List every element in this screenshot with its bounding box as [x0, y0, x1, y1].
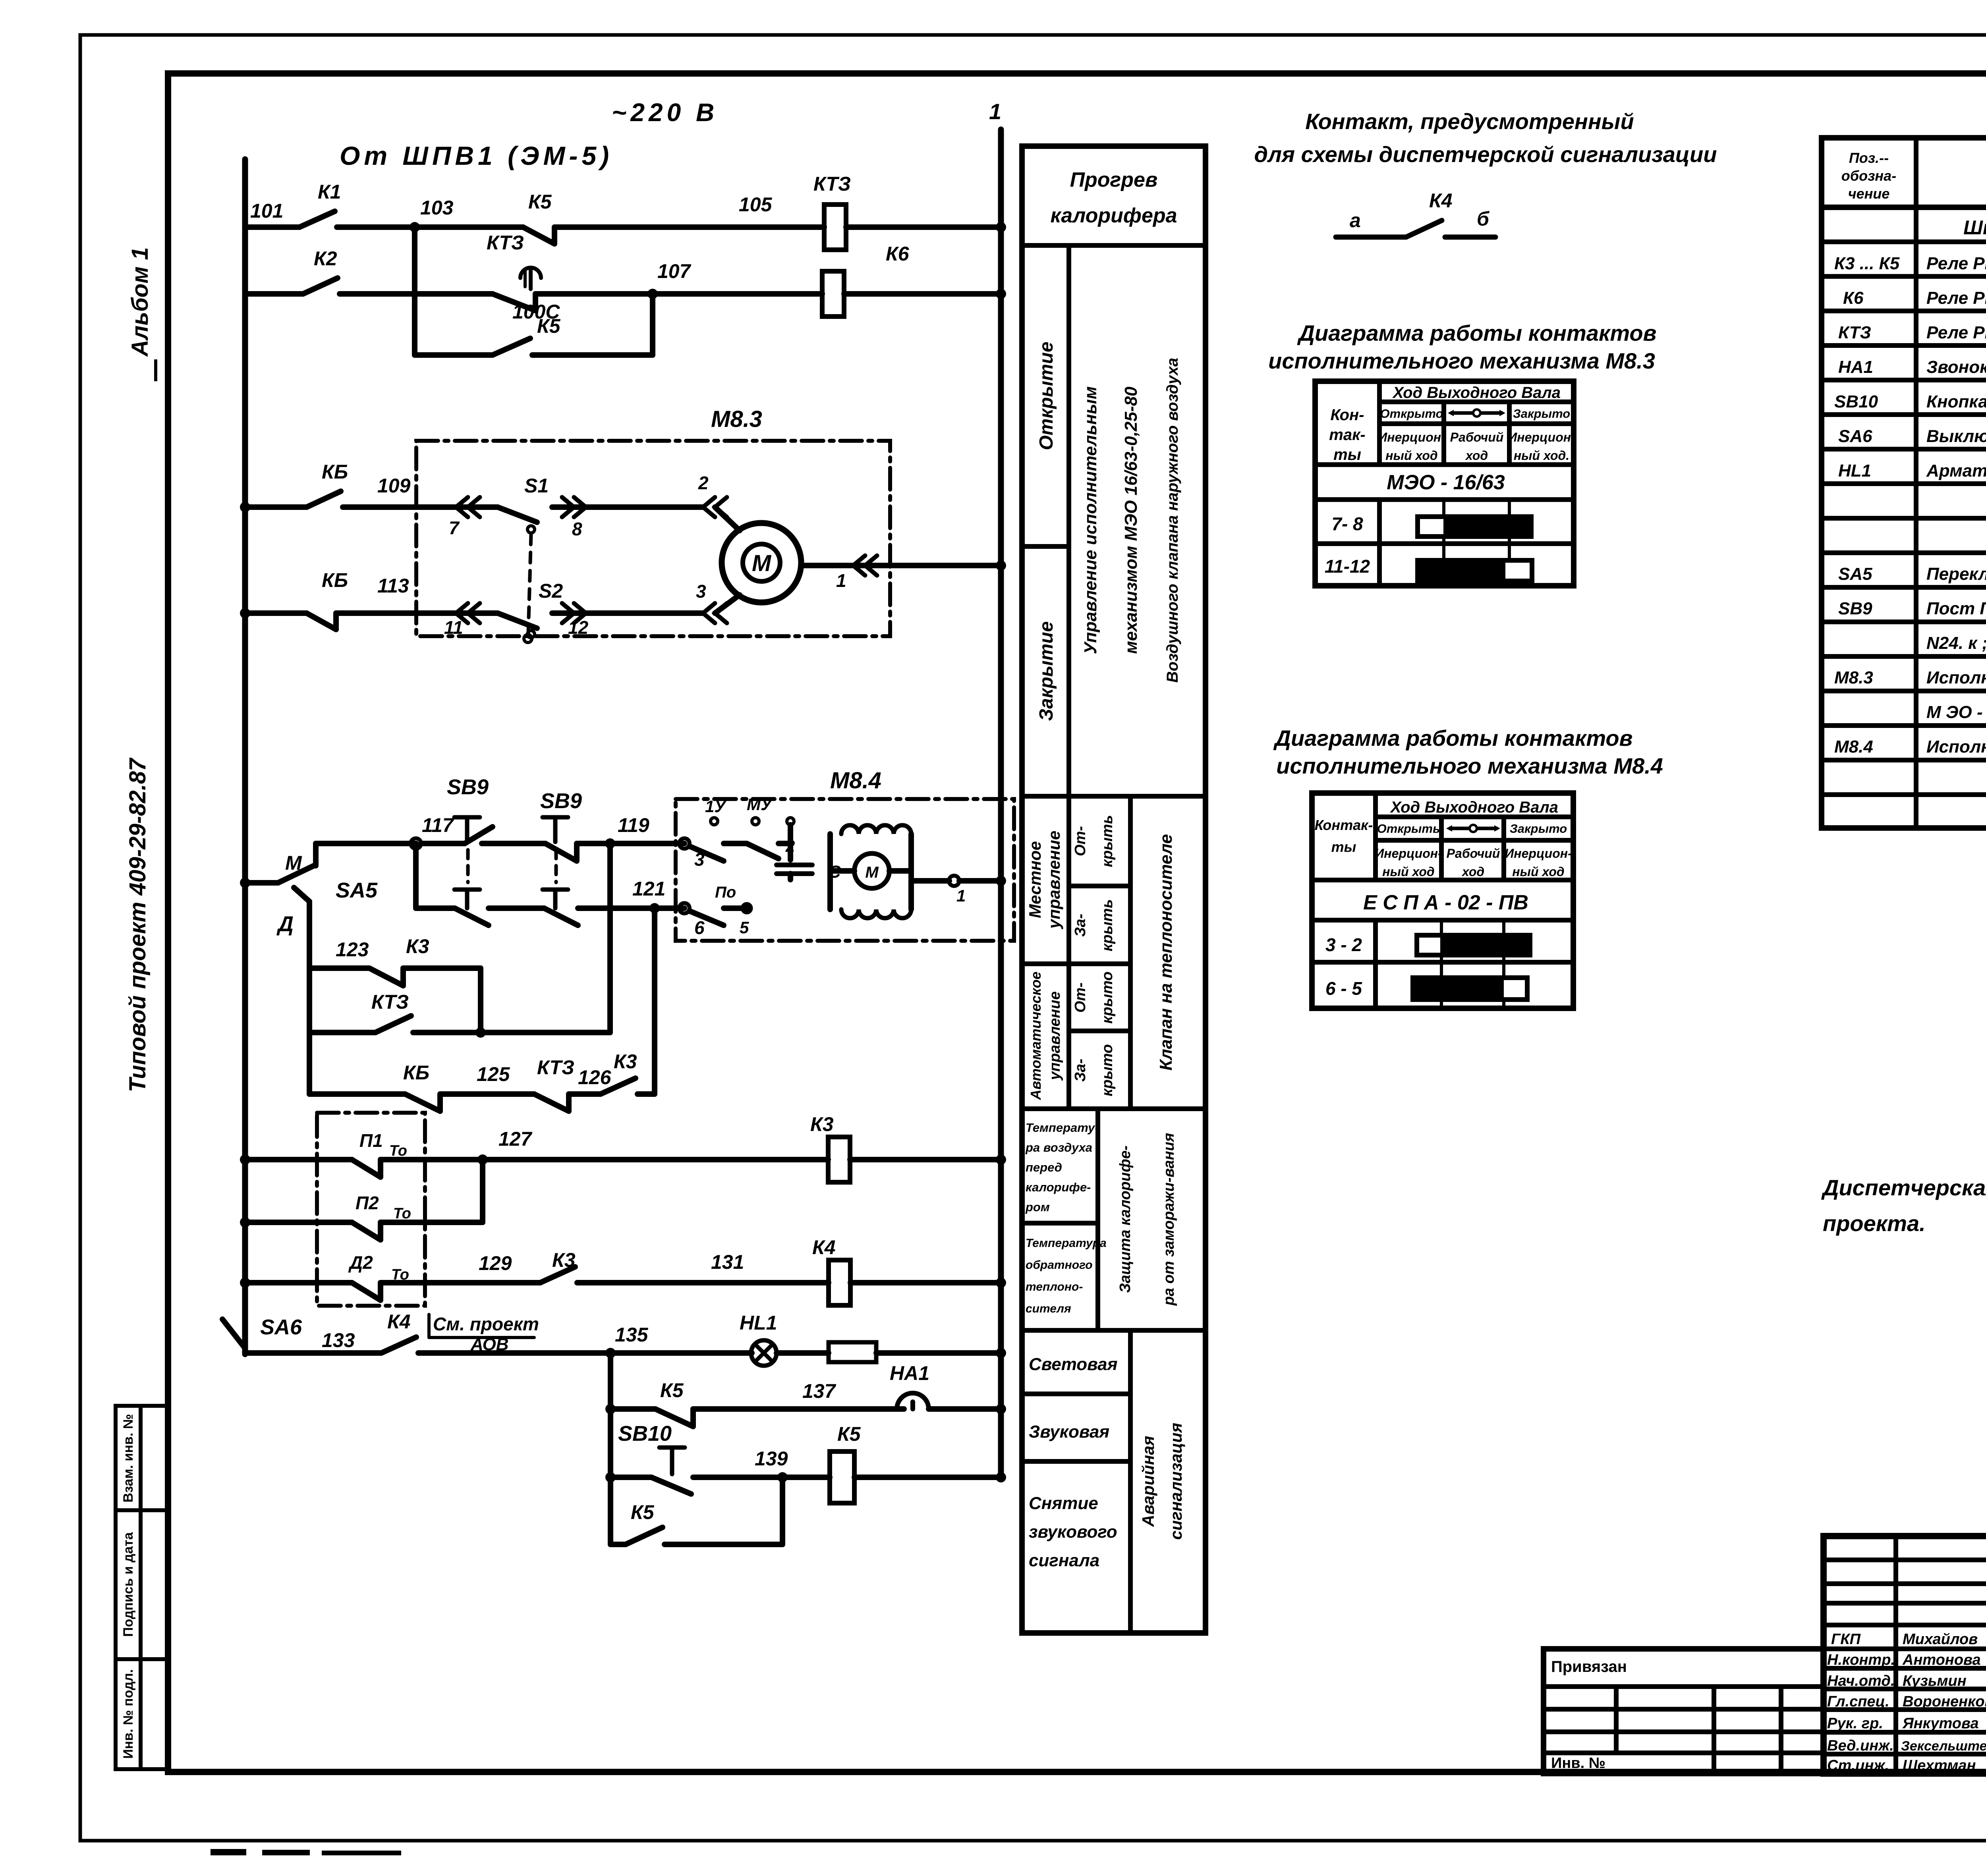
- svg-text:6: 6: [694, 917, 705, 938]
- svg-text:Реле РПУ2-М3Б440УЗБ , U ~ 220: Реле РПУ2-М3Б440УЗБ , U ~ 220В: [1926, 288, 1986, 308]
- svg-text:Управление исполнительным: Управление исполнительным: [1081, 386, 1100, 654]
- svg-text:К6: К6: [1843, 288, 1864, 308]
- svg-text:От ШПВ1 (ЭМ-5): От ШПВ1 (ЭМ-5): [340, 141, 613, 170]
- contact KT3 (126): [534, 1094, 569, 1111]
- svg-text:К2: К2: [314, 247, 337, 270]
- svg-text:То: То: [389, 1143, 407, 1159]
- svg-text:Ход Выходного Вала: Ход Выходного Вала: [1390, 799, 1558, 816]
- chevrons pin 12: [562, 603, 586, 623]
- node 121 junction: [649, 903, 660, 913]
- wire rung 129-131: [240, 1278, 250, 1288]
- svg-text:123: 123: [336, 938, 369, 961]
- svg-text:SB10: SB10: [1834, 392, 1878, 411]
- svg-text:обратного: обратного: [1026, 1258, 1093, 1272]
- svg-text:КТЗ: КТЗ: [537, 1056, 574, 1079]
- winding bottom: [841, 909, 911, 918]
- svg-text:КТЗ: КТЗ: [487, 232, 524, 254]
- pin 6: [679, 903, 690, 913]
- svg-text:сигнала: сигнала: [1029, 1551, 1099, 1570]
- svg-text:Закрыто: Закрыто: [1513, 407, 1570, 421]
- svg-text:Арматура АМЕ 321221У2, U ~ 2: Арматура АМЕ 321221У2, U ~ 220 В: [1926, 461, 1986, 481]
- contact K4 (133): [381, 1337, 416, 1353]
- svg-text:SB9: SB9: [447, 775, 489, 799]
- svg-text:К4: К4: [1429, 189, 1453, 212]
- svg-text:113: 113: [377, 575, 409, 597]
- svg-text:КТЗ: КТЗ: [371, 991, 409, 1013]
- svg-text:МЭО - 16/63: МЭО - 16/63: [1387, 471, 1505, 494]
- svg-text:133: 133: [322, 1329, 355, 1351]
- pin 3: [679, 838, 690, 849]
- wire rung 125-126: [309, 1091, 405, 1097]
- svg-text:11-12: 11-12: [1325, 556, 1370, 577]
- svg-text:Звуковая: Звуковая: [1029, 1422, 1109, 1442]
- contact KT3 (timed NC with umbrella): [493, 294, 535, 311]
- svg-text:ты: ты: [1333, 446, 1361, 463]
- svg-text:5: 5: [740, 918, 749, 937]
- bar 11-12: [1418, 560, 1532, 581]
- right return bus: [998, 129, 1004, 1477]
- svg-text:Инерцион-: Инерцион-: [1508, 430, 1575, 444]
- svg-text:М: М: [752, 550, 772, 576]
- svg-text:Типовой проект 409-29-82.87: Типовой проект 409-29-82.87: [125, 757, 151, 1092]
- button SB10 rung 139: [605, 1472, 616, 1482]
- svg-text:НА1: НА1: [1838, 357, 1873, 377]
- svg-text:Инерцион-: Инерцион-: [1505, 846, 1572, 861]
- svg-text:НА1: НА1: [890, 1362, 929, 1384]
- svg-text:Диспетчерская сигнализация: Диспетчерская сигнализация решается при …: [1821, 1175, 1986, 1200]
- svg-text:~220 В: ~220 В: [612, 98, 718, 127]
- row МЭО: [1926, 703, 1986, 722]
- svg-text:ром: ром: [1025, 1200, 1050, 1214]
- svg-text:117: 117: [422, 814, 454, 836]
- bar 3-2: [1417, 935, 1530, 955]
- svg-text:Зексельштейн: Зексельштейн: [1901, 1739, 1986, 1754]
- svg-text:Исполнительный механизм: Исполнительный механизм: [1926, 668, 1986, 687]
- svg-text:Открыть: Открыть: [1377, 822, 1440, 836]
- row SA5: [1838, 564, 1986, 584]
- chevrons pin 11: [456, 603, 480, 623]
- col Контак-ты 2: [1315, 817, 1373, 855]
- contact P2: [352, 1222, 381, 1240]
- contact KT3 (holding): [375, 1016, 411, 1033]
- svg-text:Е С П А - 02 - ПВ: Е С П А - 02 - ПВ: [1363, 891, 1528, 914]
- svg-text:М ЭО - 16/63 - 0,25 - 80: М ЭО - 16/63 - 0,25 - 80: [1926, 703, 1986, 722]
- svg-text:управление: управление: [1045, 831, 1063, 930]
- node 107: [535, 291, 822, 297]
- svg-text:SA5: SA5: [1838, 564, 1872, 584]
- contact SA6: [222, 1319, 245, 1348]
- row N24: [1926, 633, 1986, 653]
- svg-text:М: М: [865, 864, 879, 881]
- labels rung1: [250, 173, 851, 222]
- svg-text:7: 7: [449, 517, 460, 538]
- chevron pin 1: [853, 556, 877, 575]
- svg-text:К5: К5: [837, 1423, 861, 1445]
- svg-text:Нач.отд.: Нач.отд.: [1827, 1673, 1895, 1689]
- svg-text:135: 135: [615, 1324, 649, 1346]
- sensors dash-dot box: [317, 1113, 425, 1306]
- svg-text:SA5: SA5: [336, 878, 378, 902]
- svg-text:121: 121: [632, 878, 665, 900]
- row М8.4: [1834, 737, 1986, 757]
- node 119: [605, 838, 615, 849]
- svg-text:131: 131: [711, 1251, 744, 1273]
- header Поз. обозначение: [1841, 150, 1896, 202]
- svg-text:7- 8: 7- 8: [1331, 513, 1363, 534]
- contact K5 (137): [655, 1409, 693, 1426]
- svg-text:КТЗ: КТЗ: [1838, 323, 1871, 342]
- svg-text:2: 2: [698, 473, 709, 493]
- node 103: [410, 222, 420, 232]
- motor M8.3: [722, 523, 801, 602]
- svg-text:3: 3: [696, 581, 706, 602]
- svg-text:так-: так-: [1329, 426, 1365, 444]
- svg-text:Реле РВП72-3221- 00У4, U ~ 2: Реле РВП72-3221- 00У4, U ~ 220В , 60Гц: [1926, 323, 1986, 342]
- contact K3 (129): [540, 1267, 575, 1283]
- svg-text:6 - 5: 6 - 5: [1325, 978, 1362, 999]
- svg-text:Прогрев: Прогрев: [1070, 168, 1158, 191]
- holding contact K5 rung: [610, 1542, 626, 1547]
- svg-text:ты: ты: [1331, 839, 1356, 855]
- wire 103-K5: [415, 224, 523, 230]
- linkage dashes SB9: [466, 850, 470, 882]
- svg-text:SB9: SB9: [1838, 599, 1872, 618]
- svg-text:К4: К4: [812, 1236, 836, 1258]
- row М8.3: [1834, 668, 1986, 687]
- svg-text:КТЗ: КТЗ: [813, 173, 851, 195]
- labels rung2: [314, 232, 910, 323]
- M8.3 dash-dot enclosure: [416, 441, 890, 636]
- switch blade lower: [690, 911, 724, 925]
- svg-text:Аварийная: Аварийная: [1139, 1436, 1157, 1527]
- svg-text:Диаграмма работы контактов: Диаграмма работы контактов: [1297, 320, 1657, 345]
- M8.4 dash-dot enclosure: [676, 799, 1014, 941]
- svg-text:ный ход: ный ход: [1385, 448, 1437, 463]
- svg-text:чение: чение: [1848, 185, 1890, 202]
- wire K6 to bus: [844, 291, 1001, 297]
- svg-text:Рук. гр.: Рук. гр.: [1827, 1715, 1883, 1732]
- contact K3 (123): [369, 968, 403, 986]
- cell Снятие звукового сигнала: [1029, 1494, 1117, 1570]
- svg-text:Рабочий: Рабочий: [1450, 430, 1504, 444]
- svg-text:N24. к ; 1з+1р: N24. к ; 1з+1р: [1926, 633, 1986, 653]
- svg-text:Д: Д: [276, 912, 294, 936]
- svg-text:Контак-: Контак-: [1315, 817, 1373, 833]
- contact symbol a-K4-b: [1336, 220, 1495, 237]
- svg-text:Кон-: Кон-: [1331, 406, 1364, 424]
- svg-text:Температу-: Температу-: [1026, 1121, 1099, 1135]
- cell Температура обратного теплоносителя: [1026, 1237, 1107, 1315]
- row КТЗ: [1838, 323, 1986, 342]
- left supply bus: [242, 159, 248, 1354]
- svg-text:Шехтман: Шехтман: [1903, 1757, 1976, 1774]
- contact S1: [498, 507, 537, 522]
- svg-text:механизмом МЭО 16/63-0,25-80: механизмом МЭО 16/63-0,25-80: [1121, 386, 1141, 654]
- svg-text:Клапан на теплоносителе: Клапан на теплоносителе: [1156, 834, 1176, 1070]
- cell Температура воздуха перед калорифером: [1025, 1121, 1099, 1214]
- svg-text:К3 ... К5: К3 ... К5: [1834, 254, 1900, 273]
- dashed linkage S1-S2: [528, 534, 531, 633]
- bottom-left smudge marks: [211, 1849, 246, 1855]
- wire rung 127: [240, 1154, 250, 1165]
- svg-text:3 - 2: 3 - 2: [1325, 934, 1362, 955]
- svg-text:Кузьмин: Кузьмин: [1903, 1673, 1967, 1689]
- svg-text:За-: За-: [1072, 914, 1089, 937]
- svg-text:Альбом 1: Альбом 1: [127, 247, 153, 357]
- svg-text:Гл.спец.: Гл.спец.: [1827, 1693, 1889, 1710]
- svg-text:Д2: Д2: [348, 1252, 373, 1273]
- node 135: [605, 1348, 616, 1358]
- chevrons pin 7: [456, 497, 480, 517]
- wire KT3 to bus: [846, 224, 1001, 230]
- interior connections: [827, 834, 833, 909]
- svg-text:ный ход: ный ход: [1382, 865, 1434, 879]
- svg-text:крыто: крыто: [1099, 1044, 1116, 1096]
- svg-text:крыто: крыто: [1099, 971, 1116, 1023]
- svg-text:М8.3: М8.3: [1834, 668, 1873, 687]
- coil K4: [829, 1260, 850, 1305]
- lower pushbutton path: [416, 905, 455, 911]
- svg-text:Привязан: Привязан: [1551, 1658, 1627, 1675]
- winding top: [841, 825, 911, 834]
- svg-text:Выключатель ПВ2-10УЗЗР00Б: Выключатель ПВ2-10УЗЗР00Б: [1926, 427, 1986, 446]
- svg-text:К5: К5: [537, 315, 561, 337]
- button SB9 pole 1 top: [454, 817, 480, 842]
- contact K3 (to 121): [601, 1078, 636, 1094]
- bell HA1: [897, 1393, 929, 1409]
- svg-text:калорифера: калорифера: [1050, 204, 1177, 227]
- svg-text:НL1: НL1: [740, 1312, 777, 1334]
- svg-text:Кнопка КЕ - 011УЗ, исполн.: Кнопка КЕ - 011УЗ, исполн. 4: [1926, 392, 1986, 411]
- branch Д vertical: [294, 888, 309, 901]
- svg-text:для схемы диспетчерской сигнал: для схемы диспетчерской сигнализации: [1254, 142, 1717, 167]
- svg-text:139: 139: [755, 1448, 788, 1470]
- chevron pin 2: [703, 497, 727, 517]
- pin 1: [949, 876, 959, 886]
- svg-text:Звонок ЗВП 220 В - М4: Звонок ЗВП 220 В - М4: [1926, 357, 1986, 377]
- svg-text:12: 12: [568, 617, 589, 638]
- contact K5 (NC): [523, 227, 554, 244]
- svg-text:перед: перед: [1026, 1160, 1062, 1174]
- svg-text:105: 105: [739, 193, 773, 216]
- svg-text:П1: П1: [359, 1130, 383, 1151]
- svg-text:Ст.инж.: Ст.инж.: [1827, 1757, 1889, 1774]
- svg-text:М: М: [285, 852, 302, 874]
- svg-text:Переключатель ПП2-10/Н3У3ЗР56: Переключатель ПП2-10/Н3У3ЗР56Б: [1926, 564, 1986, 584]
- wire rung KT3 holding: [309, 1030, 375, 1035]
- svg-text:137: 137: [802, 1380, 837, 1402]
- note Cм. проект АОВ: [433, 1314, 539, 1354]
- wire to KT3 contact: [415, 291, 493, 297]
- wire rung P2: [240, 1217, 250, 1228]
- contact P2': [352, 1283, 381, 1300]
- contact SA5: [240, 878, 250, 888]
- svg-text:Диаграмма работы контактов: Диаграмма работы контактов: [1273, 726, 1633, 751]
- labels rung 113: [322, 569, 706, 638]
- contact KB (113): [307, 613, 336, 629]
- svg-text:К3: К3: [552, 1249, 576, 1271]
- svg-text:От-: От-: [1072, 982, 1089, 1013]
- exit wire to bus: [959, 878, 1001, 884]
- svg-text:М8.3: М8.3: [711, 406, 762, 432]
- svg-text:П2: П2: [355, 1193, 379, 1213]
- svg-text:ный ход.: ный ход.: [1514, 448, 1569, 463]
- row SB9: [1838, 599, 1986, 618]
- coil K5: [830, 1451, 854, 1503]
- motor M8.4: [854, 853, 889, 888]
- svg-text:КБ: КБ: [322, 569, 348, 591]
- svg-text:Михайлов: Михайлов: [1903, 1631, 1978, 1648]
- svg-text:Реле РПУ2-М3Б220УЗБ , U ~ 220: Реле РПУ2-М3Б220УЗБ , U ~ 220В: [1926, 254, 1986, 273]
- button SB9 pole 2 top: [543, 817, 568, 842]
- svg-text:Вороненков: Вороненков: [1903, 1693, 1986, 1710]
- svg-text:125: 125: [477, 1063, 510, 1085]
- svg-text:11: 11: [444, 617, 463, 638]
- switch blades upper: [690, 846, 724, 861]
- svg-text:129: 129: [479, 1252, 512, 1274]
- svg-text:Ход Выходного Вала: Ход Выходного Вала: [1392, 384, 1561, 401]
- svg-text:109: 109: [377, 475, 411, 497]
- svg-text:Взам. инв. №: Взам. инв. №: [121, 1414, 136, 1502]
- chevrons pin 8: [562, 497, 586, 517]
- svg-text:Защита калорифе-: Защита калорифе-: [1117, 1145, 1134, 1293]
- svg-text:а: а: [1350, 209, 1361, 232]
- coil K3: [828, 1137, 850, 1182]
- svg-text:Автоматическое: Автоматическое: [1028, 971, 1044, 1100]
- svg-text:126: 126: [578, 1066, 612, 1089]
- row НА1: [1838, 357, 1986, 377]
- svg-text:Пост ПКЕ-222-2У2, 3/4 "; N1: Пост ПКЕ-222-2У2, 3/4 "; N1- 4 .2; 1з+1р…: [1926, 599, 1986, 618]
- ballast resistor: [829, 1342, 876, 1362]
- vertical 119 down to holding rung: [607, 843, 613, 1033]
- svg-text:К5: К5: [660, 1379, 684, 1401]
- svg-text:Местное: Местное: [1026, 841, 1044, 918]
- svg-text:Снятие: Снятие: [1029, 1494, 1098, 1513]
- coil K6: [822, 271, 844, 317]
- svg-text:Антонова: Антонова: [1902, 1652, 1981, 1668]
- wire 117 down: [413, 843, 419, 908]
- svg-text:Температура: Температура: [1026, 1237, 1107, 1250]
- svg-text:К6: К6: [886, 243, 910, 265]
- svg-text:К3: К3: [614, 1050, 637, 1073]
- svg-text:SA6: SA6: [1838, 427, 1872, 446]
- svg-text:107: 107: [657, 260, 692, 282]
- svg-text:Открытие: Открытие: [1036, 342, 1057, 450]
- contact KB (109): [307, 491, 341, 507]
- svg-text:S2: S2: [539, 580, 563, 602]
- svg-text:Контакт, предусмотренный: Контакт, предусмотренный: [1305, 109, 1634, 134]
- svg-text:См. проект: См. проект: [433, 1314, 539, 1334]
- svg-text:Закрыто: Закрыто: [1510, 822, 1567, 836]
- svg-text:исполнительного механизма М: исполнительного механизма М8.4: [1276, 753, 1663, 778]
- svg-text:1: 1: [956, 886, 966, 905]
- cells Инерционный/Рабочий/Инерционный: [1378, 430, 1575, 463]
- svg-text:ход: ход: [1465, 448, 1488, 463]
- svg-text:ГКП: ГКП: [1831, 1631, 1861, 1648]
- lamp circuit wire: [610, 1350, 752, 1356]
- wire rung K2-107: [245, 291, 303, 297]
- bar 6-5: [1413, 978, 1527, 1000]
- svg-text:Н.контр.: Н.контр.: [1827, 1652, 1895, 1668]
- svg-text:Инв. №: Инв. №: [1551, 1755, 1605, 1772]
- svg-text:калорифе-: калорифе-: [1026, 1180, 1091, 1194]
- node 117: [411, 838, 421, 849]
- svg-text:119: 119: [618, 814, 649, 836]
- contact S2: [498, 613, 537, 628]
- row НL1: [1838, 461, 1986, 481]
- svg-text:По: По: [715, 884, 736, 901]
- wire rung 123: [309, 965, 369, 971]
- svg-text:Поз.--: Поз.--: [1849, 150, 1889, 166]
- svg-text:Инерцион-: Инерцион-: [1378, 430, 1445, 444]
- svg-text:Вед.инж.: Вед.инж.: [1827, 1737, 1894, 1754]
- col Кон-так-ты: [1329, 406, 1365, 463]
- wire rung 113: [245, 610, 307, 616]
- vertical to node 107: [650, 294, 655, 355]
- svg-text:звукового: звукового: [1029, 1522, 1117, 1542]
- coil KT3: [824, 205, 846, 250]
- terminal 2: [787, 818, 794, 825]
- svg-text:Исполнительный механизм ЕСПА: Исполнительный механизм ЕСПА-02-ПВ: [1926, 737, 1986, 757]
- svg-text:Закрытие: Закрытие: [1036, 621, 1057, 721]
- svg-text:SB9: SB9: [540, 789, 582, 813]
- svg-text:К5: К5: [631, 1501, 655, 1523]
- svg-text:ный ход: ный ход: [1512, 865, 1564, 879]
- svg-text:8: 8: [572, 519, 582, 539]
- svg-text:ра от заморажи-вания: ра от заморажи-вания: [1161, 1133, 1177, 1306]
- svg-text:сителя: сителя: [1026, 1302, 1071, 1315]
- svg-text:сигнализация: сигнализация: [1167, 1423, 1185, 1540]
- wire 105: [554, 224, 824, 230]
- svg-text:Шкаф автоматизации ВША: Шкаф автоматизации ВША: [1963, 216, 1986, 239]
- svg-text:От-: От-: [1072, 826, 1089, 856]
- svg-text:1: 1: [836, 570, 846, 591]
- svg-text:Инерцион-: Инерцион-: [1375, 846, 1442, 861]
- svg-text:Рабочий: Рабочий: [1447, 846, 1500, 861]
- svg-text:Подпись и дата: Подпись и дата: [121, 1532, 136, 1637]
- vertical 103 down: [412, 227, 417, 355]
- contact K1: [299, 211, 335, 227]
- capacitor C: [777, 865, 812, 874]
- svg-text:крыть: крыть: [1099, 899, 1116, 951]
- svg-text:обозна-: обозна-: [1841, 168, 1896, 184]
- svg-text:М8.4: М8.4: [1834, 737, 1873, 757]
- svg-text:SB10: SB10: [618, 1422, 672, 1446]
- row SA6: [1838, 427, 1986, 446]
- row К6: [1843, 288, 1986, 308]
- svg-text:ра воздуха: ра воздуха: [1025, 1141, 1092, 1154]
- switch terminals 1U MU: [711, 818, 718, 825]
- wire rung 109: [245, 504, 307, 510]
- signature rows: [1827, 1631, 1986, 1774]
- svg-text:Инв. № подл.: Инв. № подл.: [121, 1669, 136, 1759]
- svg-text:То: То: [393, 1205, 411, 1222]
- svg-text:крыть: крыть: [1099, 815, 1116, 867]
- left drop bus for signal rungs: [608, 1353, 613, 1544]
- svg-text:1У: 1У: [705, 797, 727, 816]
- cells Инерционный/Рабочий/Инерционный 2: [1375, 846, 1572, 879]
- svg-text:К5: К5: [528, 191, 552, 213]
- button SB9 pole2 lower: [543, 890, 568, 908]
- bell rung 137: [605, 1404, 616, 1414]
- svg-text:Открыто: Открыто: [1380, 407, 1443, 421]
- svg-text:127: 127: [498, 1128, 533, 1150]
- svg-text:Световая: Световая: [1029, 1355, 1118, 1374]
- contact P1: [352, 1160, 381, 1177]
- svg-text:К3: К3: [810, 1113, 834, 1135]
- wire to motor bottom: [715, 595, 740, 613]
- svg-text:Янкутова: Янкутова: [1902, 1715, 1979, 1732]
